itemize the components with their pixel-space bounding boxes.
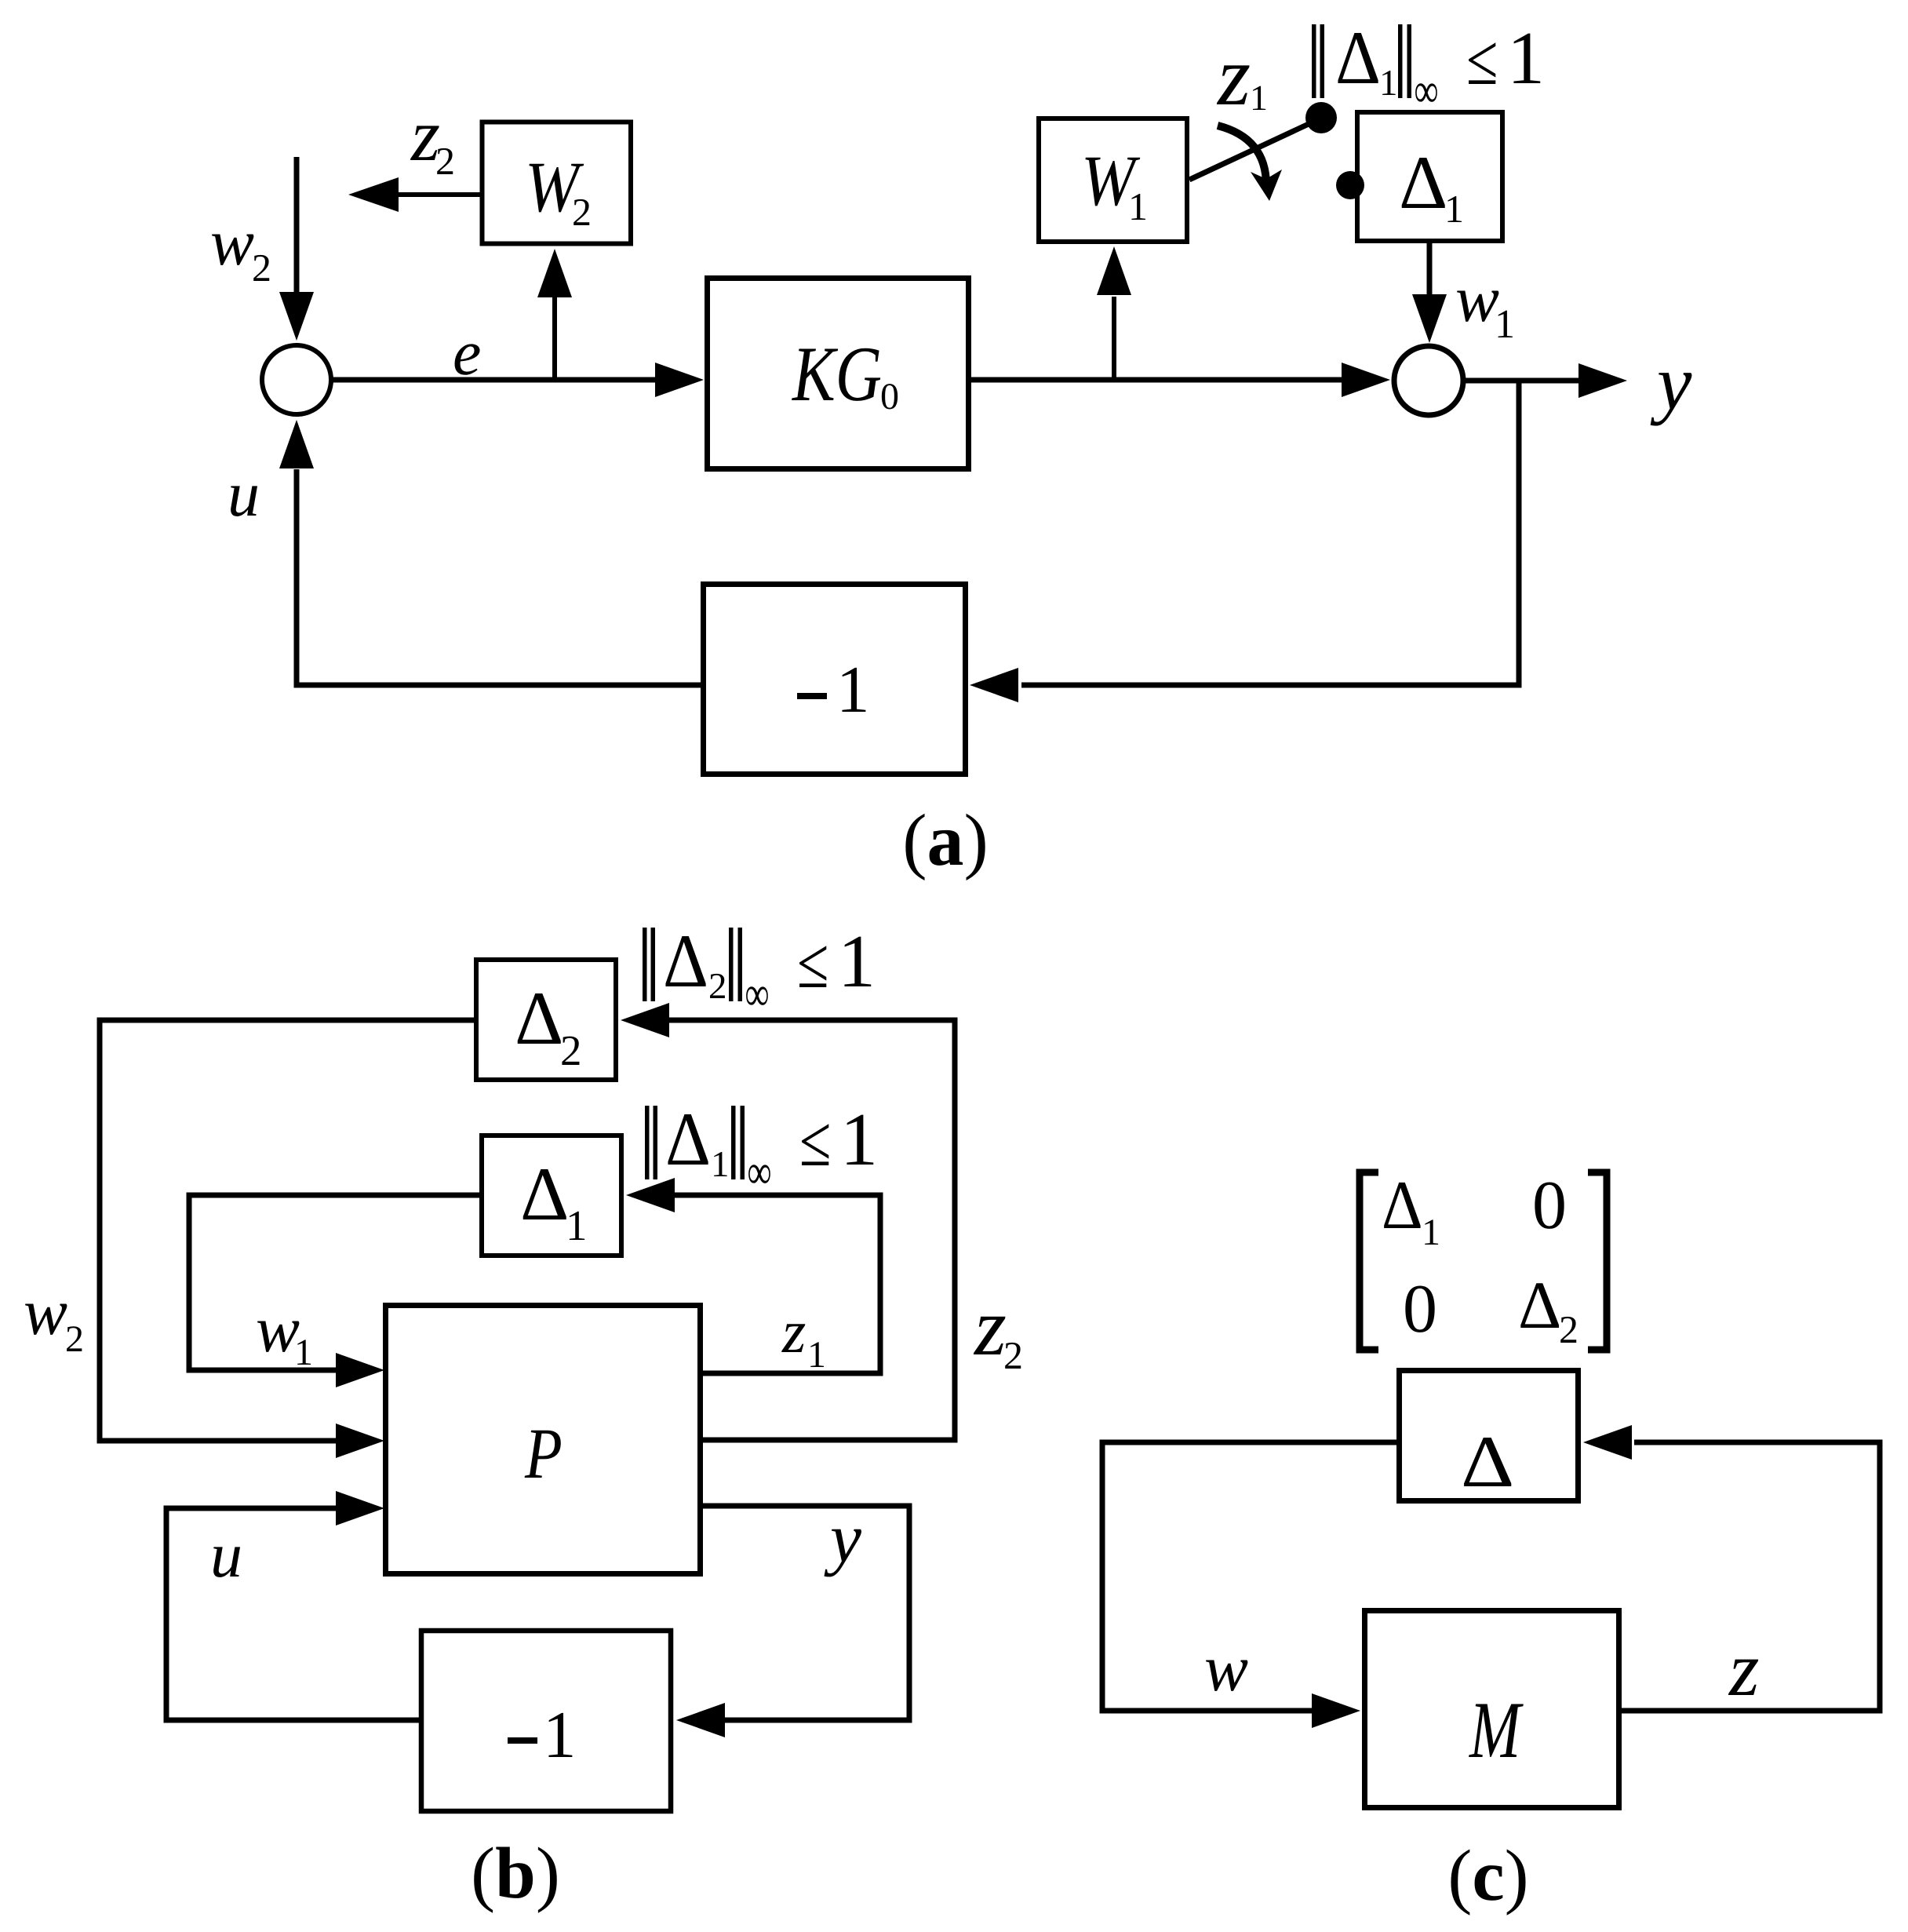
arrowhead into W1: [1097, 246, 1131, 295]
svg-text:Δ: Δ: [1518, 1267, 1561, 1343]
svg-text:2: 2: [1559, 1307, 1578, 1351]
label Delta1 (b): [520, 1152, 588, 1249]
svg-text:0: 0: [880, 376, 899, 417]
matrix entry 0 top right: [1532, 1168, 1567, 1244]
block Delta1 (a): [1357, 112, 1502, 241]
feedback wire left and u: [297, 469, 701, 685]
wire u loop (b): [166, 1508, 419, 1720]
svg-text:1: 1: [807, 1334, 826, 1376]
svg-text:w: w: [1455, 263, 1499, 336]
label W2: [525, 147, 592, 234]
svg-text:z: z: [781, 1297, 806, 1365]
switch contact dot A: [1305, 102, 1337, 133]
norm label ||Delta1||inf <= 1 (b): [645, 1097, 878, 1199]
svg-text:2: 2: [572, 190, 592, 234]
wire z1 loop (b): [672, 1195, 880, 1373]
svg-text:1: 1: [711, 1144, 730, 1185]
svg-text:1: 1: [566, 1201, 588, 1249]
summing junction S1: [262, 345, 331, 414]
arrowhead into S2 from Delta1: [1412, 294, 1447, 343]
label y (a): [1650, 339, 1692, 426]
block P: [386, 1306, 701, 1574]
block Delta2 (b): [476, 960, 616, 1080]
svg-text:u: u: [228, 458, 260, 530]
wire w2: [294, 157, 300, 295]
wire w1 loop (b): [189, 1195, 479, 1370]
arrowhead y: [1578, 363, 1627, 398]
switch motion arc arrow: [1218, 126, 1282, 201]
label z2 (b): [973, 1281, 1023, 1377]
svg-text:Δ: Δ: [1399, 140, 1447, 224]
wire branch to W1: [1112, 297, 1116, 380]
label P: [524, 1413, 563, 1493]
label w (c): [1204, 1632, 1248, 1705]
svg-text:1: 1: [294, 1332, 313, 1373]
wire z loop (c): [1622, 1442, 1880, 1711]
svg-text:Δ: Δ: [1382, 1168, 1423, 1244]
label z (c): [1728, 1627, 1760, 1712]
svg-text:1: 1: [1422, 1212, 1440, 1253]
arrowhead w2 into S1: [279, 292, 314, 341]
svg-text:Δ: Δ: [1461, 1421, 1514, 1503]
svg-text:∞: ∞: [1415, 64, 1439, 118]
matrix right bracket: [1588, 1172, 1607, 1350]
arrowhead u into S1: [279, 420, 314, 468]
svg-text:y: y: [1650, 339, 1692, 426]
arrowhead z2: [348, 177, 399, 212]
block -1 (a): [704, 585, 966, 775]
caption (a): [902, 800, 989, 881]
wire KG0 output: [971, 377, 1343, 383]
svg-text:w: w: [24, 1276, 67, 1349]
label w1 (b): [256, 1293, 313, 1373]
label W1: [1081, 140, 1148, 228]
svg-text:z: z: [1728, 1627, 1760, 1712]
label -1 (a): [797, 653, 870, 727]
block M: [1365, 1611, 1619, 1808]
svg-text:Δ: Δ: [665, 1097, 711, 1181]
svg-text:≤: ≤: [799, 1101, 831, 1181]
matrix entry Delta2: [1518, 1267, 1578, 1351]
label z1: [1216, 30, 1268, 123]
label e: [453, 317, 481, 388]
label u (a): [228, 458, 260, 530]
svg-text:z: z: [973, 1281, 1007, 1372]
label Delta1 (a): [1399, 140, 1464, 231]
svg-text:∞: ∞: [745, 968, 770, 1021]
svg-text:Δ: Δ: [1335, 16, 1381, 100]
wire y loop (b): [703, 1506, 909, 1720]
block W1: [1039, 118, 1187, 242]
matrix entry 0 bottom left: [1403, 1271, 1437, 1347]
norm label ||Delta1||inf <= 1 (a): [1312, 16, 1545, 118]
arrowhead y into -1 (b): [676, 1703, 725, 1737]
svg-text:M: M: [1468, 1686, 1524, 1775]
svg-text:w: w: [256, 1293, 300, 1366]
arrowhead e into KG0: [655, 363, 704, 397]
wire z2 from W2: [397, 192, 482, 197]
arrowhead into W2: [537, 249, 572, 297]
arrowhead z1 into Delta1: [626, 1178, 675, 1212]
arrowhead into -1 block: [970, 668, 1018, 702]
svg-text:Δ: Δ: [515, 976, 563, 1060]
svg-text:1: 1: [838, 919, 876, 1003]
svg-text:w: w: [210, 206, 254, 279]
svg-text:(a): (a): [902, 800, 989, 881]
svg-text:1: 1: [840, 1097, 878, 1181]
label KG0: [791, 330, 899, 417]
svg-text:(b): (b): [471, 1833, 560, 1914]
svg-text:0: 0: [1532, 1168, 1567, 1244]
label Delta2 (b): [515, 976, 582, 1074]
wire e: [331, 377, 657, 383]
svg-text:Δ: Δ: [520, 1152, 569, 1236]
arrowhead into S2: [1342, 363, 1390, 397]
label z1 (b): [781, 1297, 826, 1376]
svg-text:2: 2: [435, 139, 455, 183]
svg-text:(c): (c): [1447, 1835, 1528, 1916]
switch contact dot B: [1336, 171, 1364, 199]
block W2: [482, 122, 632, 244]
arrowhead w1 into P: [336, 1353, 384, 1387]
svg-text:KG: KG: [791, 330, 882, 417]
svg-text:2: 2: [560, 1026, 582, 1074]
svg-text:Δ: Δ: [663, 919, 708, 1003]
block Delta (c): [1400, 1371, 1578, 1501]
svg-text:1: 1: [1444, 187, 1464, 231]
wire z2 loop (b): [666, 1020, 955, 1440]
arrowhead w into M: [1312, 1693, 1360, 1728]
arrowhead w2 into P: [336, 1423, 384, 1458]
svg-text:1: 1: [1379, 63, 1398, 104]
arrowhead u into P: [336, 1491, 384, 1526]
arrowhead z2 into Delta2: [621, 1003, 669, 1037]
feedback wire right and down: [1021, 381, 1519, 685]
svg-text:2: 2: [708, 966, 727, 1007]
svg-text:P: P: [524, 1413, 563, 1493]
svg-text:e: e: [453, 317, 481, 388]
caption (b): [471, 1833, 560, 1914]
wire w2 loop (b): [100, 1020, 474, 1441]
block KG0: [708, 279, 969, 469]
wire w loop (c): [1102, 1442, 1396, 1711]
svg-text:1: 1: [1250, 78, 1268, 118]
wire y output: [1466, 378, 1580, 384]
svg-text:≤: ≤: [1466, 20, 1498, 100]
label M: [1468, 1686, 1524, 1775]
svg-text:1: 1: [543, 1698, 577, 1772]
label Delta (c): [1461, 1421, 1514, 1503]
svg-text:∞: ∞: [748, 1146, 772, 1199]
matrix left bracket: [1360, 1172, 1378, 1350]
svg-text:1: 1: [1507, 16, 1545, 100]
svg-text:1: 1: [836, 653, 870, 727]
label -1 (b): [508, 1698, 577, 1772]
norm label ||Delta2||inf <= 1 (b): [643, 919, 876, 1021]
caption (c): [1447, 1835, 1528, 1916]
label w1 (a): [1455, 263, 1515, 347]
svg-text:2: 2: [1003, 1333, 1023, 1377]
svg-text:0: 0: [1403, 1271, 1437, 1347]
arrowhead z into Delta (c): [1583, 1425, 1632, 1460]
block Delta1 (b): [482, 1136, 621, 1256]
wire Delta1 to S2: [1427, 243, 1433, 297]
svg-text:2: 2: [65, 1318, 84, 1360]
svg-text:y: y: [824, 1500, 861, 1577]
svg-text:w: w: [1204, 1632, 1248, 1705]
svg-text:≤: ≤: [797, 923, 828, 1003]
svg-text:1: 1: [1495, 302, 1515, 347]
label y (b): [824, 1500, 861, 1577]
summing junction S2: [1394, 346, 1463, 415]
svg-text:2: 2: [252, 246, 271, 290]
svg-text:u: u: [210, 1519, 242, 1591]
wire branch e to W2: [552, 297, 557, 380]
label w2 (b): [24, 1276, 84, 1360]
label w2: [210, 206, 271, 290]
label u (b): [210, 1519, 242, 1591]
svg-text:1: 1: [1128, 184, 1148, 228]
matrix entry Delta1: [1382, 1168, 1440, 1253]
svg-text:z: z: [1216, 30, 1251, 123]
block -1 (b): [421, 1631, 671, 1811]
label z2: [410, 93, 455, 183]
switch lever wire from W1: [1189, 124, 1309, 180]
